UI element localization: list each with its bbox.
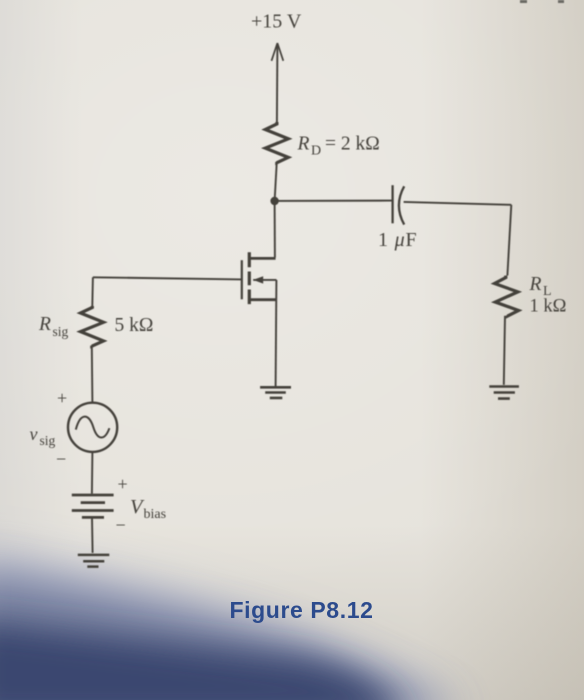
svg-text:bias: bias	[144, 507, 167, 522]
svg-text:R: R	[38, 314, 51, 335]
svg-text:D: D	[311, 144, 321, 159]
svg-text:R: R	[529, 274, 542, 295]
svg-text:−: −	[116, 515, 126, 535]
svg-text:+15 V: +15 V	[251, 11, 302, 33]
svg-text:sig: sig	[40, 433, 56, 448]
svg-text:1 kΩ: 1 kΩ	[530, 297, 567, 317]
svg-text:−: −	[56, 449, 66, 469]
svg-text:v: v	[30, 424, 38, 444]
svg-text:+: +	[57, 388, 67, 408]
svg-text:sig: sig	[53, 324, 69, 339]
svg-text:R: R	[297, 134, 310, 155]
svg-text:+: +	[118, 474, 128, 494]
svg-text:5 kΩ: 5 kΩ	[115, 315, 154, 336]
svg-text:1 μF: 1 μF	[378, 229, 417, 251]
svg-text:= 2 kΩ: = 2 kΩ	[325, 134, 380, 155]
